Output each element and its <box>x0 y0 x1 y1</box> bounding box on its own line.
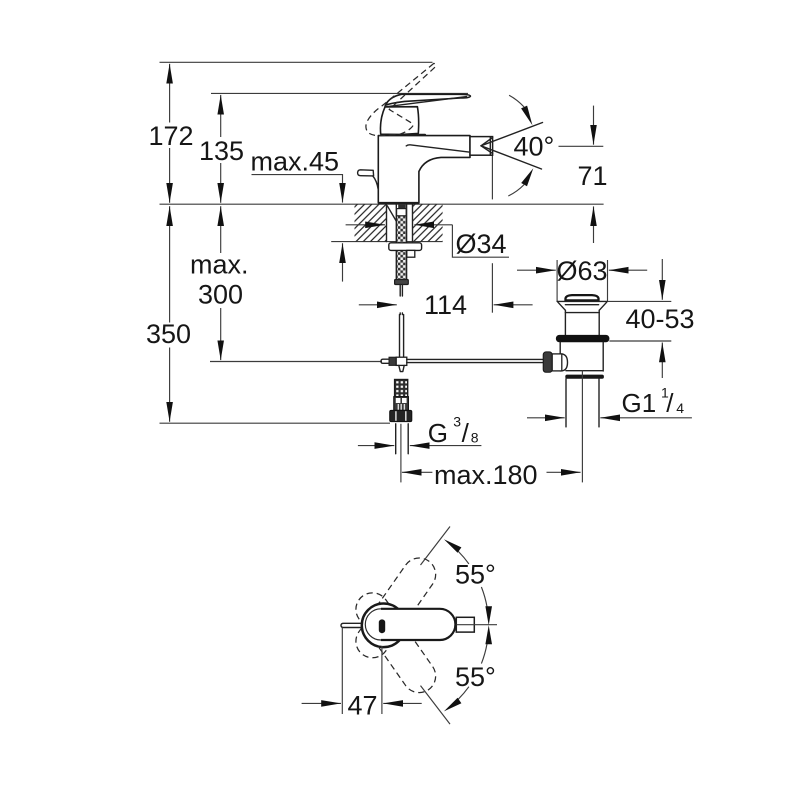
svg-text:3: 3 <box>453 413 461 429</box>
deck top surface line <box>160 203 604 205</box>
dimension 114 left arrow at tube <box>359 304 397 306</box>
supply tube lower wider section <box>400 315 404 358</box>
max.45 leader underline and drop arrow to deck top <box>252 175 343 177</box>
supply centerline to max180 <box>400 424 402 483</box>
drain body <box>560 342 603 371</box>
dimension 40-53 bottom arrow stub <box>661 343 663 379</box>
drain rod knob dark cap <box>543 352 552 372</box>
svg-text:G: G <box>428 418 448 448</box>
dimension max300 vertical upper segment with up arrow to deck <box>220 206 222 253</box>
plan view: body pill left cap thin arc <box>365 609 381 640</box>
Ø34 arrow right with leader <box>414 225 509 257</box>
handle base body <box>380 107 418 135</box>
bottom reference line (350 bottom) <box>160 422 391 424</box>
dimension 47 left arrow <box>302 702 341 704</box>
reference line handle height 135 datum <box>211 92 468 94</box>
deck bottom surface line <box>331 241 442 243</box>
label G3/8 <box>428 413 479 448</box>
plan view: 55deg radius line lower <box>421 686 451 725</box>
reference line top (height 172 datum) <box>160 61 433 63</box>
drain neck <box>565 310 599 335</box>
mounting hole left edge <box>386 204 388 241</box>
thin supply tube upper <box>400 285 402 315</box>
faucet body outline <box>378 136 470 203</box>
popup horizontal rod to drain <box>407 359 543 362</box>
G3/8 thread tails below nut <box>396 424 409 454</box>
svg-text:55°: 55° <box>455 559 496 589</box>
dashed raised handle outline <box>366 63 436 135</box>
aerator extension line lower segment <box>491 263 493 313</box>
mounting hole right edge <box>412 204 414 241</box>
dimension 71 aerator level reference line <box>559 145 604 147</box>
plan view: 55deg radius line upper <box>421 527 451 566</box>
plan view: base circle <box>362 604 406 648</box>
dimension 40-53 top arrow stub <box>661 259 663 300</box>
handle lever blade <box>385 94 470 105</box>
svg-text:55°: 55° <box>455 662 496 692</box>
dimension 172 vertical line lower segment with down arrow <box>169 148 171 203</box>
hole cone line <box>387 206 396 222</box>
40-53 upper reference line (flange top extended) <box>608 300 672 302</box>
55deg arc lower segments <box>444 625 492 711</box>
dimension 135 vertical line lower segment with down arrow <box>220 163 222 203</box>
svg-text:71: 71 <box>578 161 608 191</box>
Ø34 arrow left stub <box>346 224 385 226</box>
spray cone lower edge <box>481 146 542 169</box>
svg-text:47: 47 <box>348 691 378 721</box>
svg-text:114: 114 <box>424 290 467 320</box>
dimension G1 1/4 leader with arrow <box>600 417 692 419</box>
svg-text:350: 350 <box>146 319 191 349</box>
drain centerline <box>581 371 583 483</box>
dimension 114 right arrow at aerator extension <box>494 304 533 306</box>
svg-text:/: / <box>462 418 470 448</box>
threaded shank through deck <box>396 204 406 280</box>
svg-text:8: 8 <box>471 430 479 446</box>
dimension 71 stub with down arrow <box>593 106 595 145</box>
dimension 47 right extension line <box>381 646 383 714</box>
dimension max180 left arrow pointing left <box>402 471 433 473</box>
handle lever ridge line <box>385 97 467 107</box>
dimension G1 1/4 left stub arrow <box>527 417 565 419</box>
handle to body dark seam <box>389 134 425 136</box>
plan view: centerline through nozzle <box>457 624 498 626</box>
dimension 135 vertical line upper segment with up arrow <box>220 95 222 137</box>
dimension 47 right arrow <box>383 702 422 704</box>
svg-text:40-53: 40-53 <box>626 304 695 334</box>
hose hex section <box>394 397 409 411</box>
40 degree arc lower segment with arrowhead <box>508 185 524 196</box>
popup rod coupling block <box>396 357 407 365</box>
svg-text:172: 172 <box>149 121 194 151</box>
40-53 lower reference line <box>609 340 671 342</box>
svg-text:4: 4 <box>676 400 684 416</box>
popup waste drain: Ø63 extension lines <box>557 260 607 301</box>
svg-text:max.45: max.45 <box>251 147 340 177</box>
label G1 1/4 <box>622 385 685 418</box>
plan view: body pill outline thick part <box>381 609 456 640</box>
drain tailpipe <box>566 379 599 427</box>
side block on shank <box>407 250 415 257</box>
braided hose section <box>395 380 408 397</box>
max.45 counter thickness arrow below deck pointing up <box>342 243 344 281</box>
deck hatch right block <box>413 204 443 241</box>
plan view: dashed handle swung down 55 <box>349 586 442 699</box>
drain plug dome <box>566 295 599 300</box>
dimension 172 vertical line upper segment with up arrow <box>169 64 171 123</box>
svg-text:Ø63: Ø63 <box>557 256 608 286</box>
svg-text:40°: 40° <box>514 131 555 161</box>
svg-text:135: 135 <box>199 136 244 166</box>
G3/8 leader line with left arrow <box>410 445 482 447</box>
drain rod knob white collar <box>552 354 562 371</box>
55deg arc upper segments <box>444 539 492 625</box>
drain flange <box>557 301 607 310</box>
dimension 47 left extension line <box>341 628 343 715</box>
svg-text:/: / <box>666 388 674 418</box>
plan view: body pill white fill <box>365 609 455 640</box>
popup actuator knob behind body <box>358 170 379 190</box>
dimension Ø63 left arrow <box>517 269 556 271</box>
aerator extension line upper segment <box>491 155 493 199</box>
G3/8 left stub arrow to thread <box>358 445 394 447</box>
svg-text:max.180: max.180 <box>434 460 538 490</box>
drain O-ring <box>556 335 610 342</box>
hose level reference line (max300 bottom) <box>210 361 382 363</box>
tube taper below coupling <box>399 365 404 371</box>
aerator block <box>470 137 493 156</box>
svg-text:G1: G1 <box>622 388 657 418</box>
dimension Ø63 right arrow <box>609 269 647 271</box>
dimension max300 vertical lower segment with down arrow <box>220 308 222 360</box>
deck hatch left block <box>355 204 387 241</box>
popup rod coupling left cap <box>381 359 389 363</box>
plan view: lever slot dark bar <box>379 619 385 633</box>
mounting washer under deck <box>389 243 422 251</box>
dimension 350 vertical lower segment with down arrow <box>169 348 171 422</box>
svg-text:max.: max. <box>190 249 249 279</box>
drain body lower black ring <box>565 375 604 379</box>
popup rod coupling knurl <box>389 357 396 365</box>
svg-text:Ø34: Ø34 <box>456 229 507 259</box>
dimension 350 vertical upper segment with up arrow to deck <box>169 206 171 322</box>
dimension max180 right arrow pointing right <box>547 471 581 473</box>
plan view: square aerator nozzle <box>456 617 474 632</box>
spray cone open arrowhead at aerator <box>481 138 493 154</box>
40 degree arc upper segment with arrowhead <box>509 95 524 107</box>
svg-text:300: 300 <box>198 279 243 309</box>
shank end nut <box>395 280 409 285</box>
plan view: popup knob tail <box>341 623 361 627</box>
base contact dark line on deck <box>379 202 419 204</box>
spray cone upper edge <box>481 123 543 146</box>
dimension 71 up arrow below deck <box>593 206 595 243</box>
drain knob socket curve <box>562 354 568 371</box>
G3/8 connection nut <box>390 410 412 421</box>
plan view: dashed handle swung up 55 <box>349 552 442 665</box>
spout inner contour line <box>406 145 469 152</box>
